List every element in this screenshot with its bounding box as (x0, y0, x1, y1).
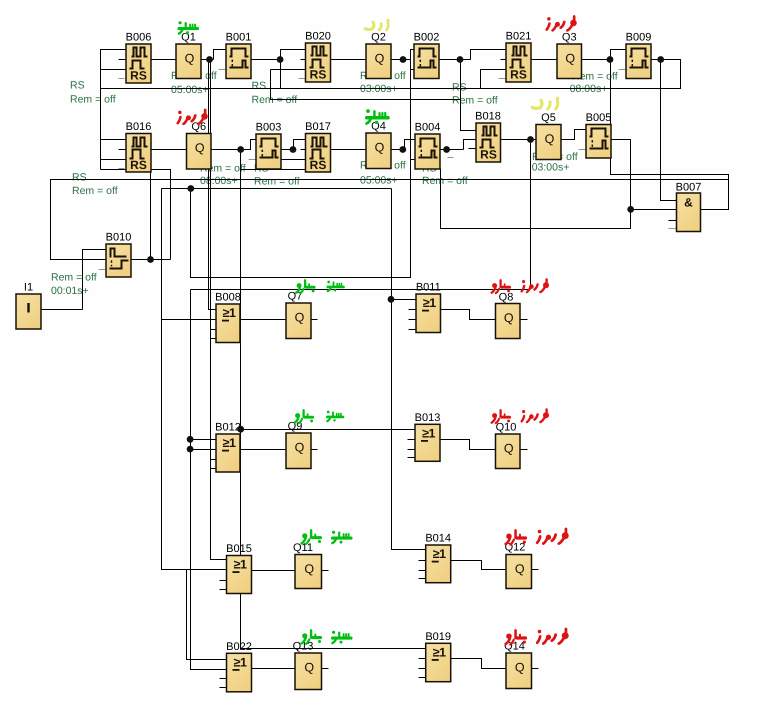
wire node down to bus (280, 60, 282, 89)
stub B011.in3 (409, 319, 417, 321)
junction node (388, 296, 395, 303)
OR gate B019 (425, 631, 451, 682)
neg mark B021 (499, 78, 507, 80)
junction node (237, 426, 244, 433)
output Q4 (366, 121, 391, 169)
wire B007.out feedback long bus (51, 180, 729, 260)
svg-text:Q: Q (565, 51, 575, 65)
junction node (627, 206, 634, 213)
svg-text:Q: Q (295, 310, 305, 324)
wire branch to B004.in3 (411, 159, 416, 161)
output Q13 (293, 641, 322, 690)
wire B006.out to Q1.in (152, 59, 177, 61)
svg-text:B015: B015 (226, 543, 252, 555)
output Q1 (176, 32, 201, 79)
stub Q11.out (322, 570, 329, 572)
svg-text:RS: RS (130, 158, 147, 172)
OR gate B008 (215, 292, 241, 343)
stub Q13.out (322, 668, 329, 670)
neg mark B018 (448, 157, 454, 159)
stub B017.in2 (301, 149, 306, 151)
stub B019.in2 (419, 658, 426, 660)
svg-text:Q5: Q5 (541, 112, 556, 124)
wire Q6.out jog to B003.in1 (212, 140, 257, 150)
svg-text:Q8: Q8 (499, 292, 514, 304)
svg-text:B006: B006 (126, 32, 152, 44)
wire I1.out to branches (42, 309, 83, 311)
label green sabz above Q11 (332, 531, 351, 544)
label red qermez above Q3 (547, 16, 577, 30)
junction node (237, 146, 244, 153)
wire long wire into B007.in2 node (441, 169, 631, 229)
output Q10 (496, 422, 521, 469)
svg-text:B013: B013 (415, 412, 441, 424)
svg-text:Q: Q (375, 51, 385, 65)
svg-text:≥1: ≥1 (423, 296, 436, 310)
neg mark B010 (99, 269, 107, 271)
label green aber above Q7 (296, 280, 314, 293)
svg-text:≥1: ≥1 (234, 655, 247, 669)
svg-text:Q10: Q10 (496, 422, 517, 434)
stub B006.in3 (101, 69, 127, 71)
wire jog up to B009.in1 (611, 50, 627, 60)
wire stub B008.in4 (211, 338, 217, 340)
OR gate B014 (425, 533, 451, 583)
junction node (657, 56, 664, 63)
wire node down to B007.in1 (661, 60, 677, 201)
stub B019.in3 (419, 668, 426, 670)
stub Q7.out (312, 319, 318, 321)
svg-text:Q: Q (304, 562, 314, 576)
label red qermez above Q8 (522, 279, 549, 292)
output Q9 (286, 421, 311, 469)
junction node (187, 185, 194, 192)
wire branch to B012.in2 (191, 449, 217, 451)
pulse relay B018 (475, 111, 501, 163)
stub B014.in2 (419, 560, 426, 562)
wire B020.out to Q2.in (331, 59, 367, 61)
wire node down to Q2 column (191, 60, 411, 278)
svg-text:Q: Q (504, 311, 514, 325)
output Q14 (504, 641, 531, 689)
OR gate B022 (226, 641, 252, 692)
stub B013.in4 (408, 457, 416, 459)
wire branch down to B022.in1 (187, 570, 227, 660)
wire Q3 node down to bus A (611, 60, 729, 180)
svg-text:Rem = off: Rem = off (72, 185, 118, 197)
svg-text:Q: Q (515, 562, 525, 576)
svg-text:B003: B003 (256, 122, 282, 134)
wire Q1 node down to B015.in1 (211, 60, 227, 560)
svg-text:Q: Q (304, 660, 314, 674)
wire branch B016.in1 (101, 139, 127, 141)
wiping relay timer B001 (226, 32, 252, 79)
output Q12 (505, 542, 532, 589)
svg-text:B017: B017 (305, 121, 331, 133)
svg-text:B021: B021 (506, 31, 532, 43)
wire B015.out to Q11.in (252, 570, 296, 572)
wire Q2.out to node (392, 59, 411, 61)
svg-text:RS: RS (252, 80, 267, 92)
wire Q5.in node down to bus (530, 140, 532, 290)
output Q6 (187, 121, 212, 169)
svg-text:B022: B022 (226, 641, 252, 653)
label green sabz above Q7 (327, 281, 343, 292)
stub Q10.out (521, 449, 528, 451)
label red qermez above Q14 (537, 629, 569, 644)
wire B018.out to Q5.in (501, 139, 537, 141)
wire jog up to B020.in1 (281, 50, 306, 60)
label green aber above Q9 (295, 410, 313, 423)
junction node (290, 146, 297, 153)
label yellow zard above Q2 (365, 19, 390, 30)
svg-text:B004: B004 (415, 122, 441, 134)
wire jog up to B001.in1 (214, 50, 227, 60)
wire B019.out to Q14.in (451, 659, 507, 669)
wiping relay timer B004 (415, 122, 441, 170)
svg-text:Q: Q (185, 51, 195, 65)
svg-text:03:00s+: 03:00s+ (532, 162, 570, 174)
wiping relay timer B005 (586, 112, 612, 158)
stub B020.in2 (301, 59, 306, 61)
label red aber above Q8 (492, 280, 510, 293)
svg-text:Q4: Q4 (371, 121, 386, 133)
label green sabz above Q1 (179, 21, 198, 34)
svg-text:Rem = off: Rem = off (70, 93, 116, 105)
svg-text:Q3: Q3 (562, 32, 577, 44)
wire B016.out to Q6.in (152, 149, 187, 151)
svg-text:Q: Q (545, 132, 555, 146)
wire B005.out down to B007.in2 node (612, 140, 677, 210)
svg-text:00:01s+: 00:01s+ (51, 285, 89, 297)
output Q7 (286, 291, 311, 339)
wire branch B016.in4 behind block (101, 169, 151, 171)
wire branch B016.in3 (101, 159, 127, 161)
junction node (607, 56, 614, 63)
junction node (187, 436, 194, 443)
stub B013.in2 (408, 439, 416, 441)
AND gate B007 (676, 182, 702, 232)
wire Q5.out jog to B005.in1 (562, 130, 587, 140)
junction node (527, 136, 534, 143)
OR gate B015 (226, 543, 252, 594)
neg mark B003 (249, 159, 257, 161)
stub B006.in2 (119, 59, 127, 61)
wiping relay timer B003 (256, 122, 282, 170)
pulse relay B020 (305, 31, 331, 83)
svg-text:B016: B016 (126, 121, 152, 133)
stub B018.in3 (469, 148, 477, 150)
pulse relay B006 (126, 32, 152, 84)
pulse relay B016 (126, 121, 152, 172)
svg-text:Q: Q (515, 660, 525, 674)
stub B019.in4 (419, 677, 426, 679)
svg-text:&: & (684, 196, 693, 210)
wire B002.out to node (440, 59, 471, 61)
wire jog up to B021.in1 (471, 50, 507, 60)
svg-text:B019: B019 (425, 631, 451, 643)
wire B011.out to Q8.in (441, 310, 496, 320)
wire B017.in3 behind B003 (282, 159, 306, 161)
wire B014.out to Q12.in (451, 561, 507, 570)
label red aber above Q14 (506, 630, 526, 644)
wire stub B012.in4 (211, 468, 217, 470)
svg-text:B001: B001 (226, 32, 252, 44)
wire B008.out to Q7.in (241, 319, 287, 321)
label red aber above Q10 (492, 410, 510, 423)
wire B021.in3 from bus (481, 70, 507, 89)
svg-text:I1: I1 (24, 282, 33, 294)
wire branch to B017.in4 (241, 169, 306, 171)
wire bus down to B014.in1 (392, 189, 426, 550)
wire stub B012.in3 (211, 459, 217, 461)
svg-text:≥1: ≥1 (234, 558, 247, 572)
stub B016.in2 (119, 149, 127, 151)
wire B013.out to Q10.in (441, 440, 496, 450)
svg-text:B008: B008 (215, 292, 241, 304)
wire branch to B002.in3 (411, 69, 415, 71)
wire bus down to B022.in2 (191, 290, 227, 670)
svg-text:B002: B002 (414, 32, 440, 44)
junction node (277, 56, 284, 63)
svg-text:Q: Q (375, 140, 385, 154)
wire bus to B008.in2 (162, 319, 217, 321)
svg-text:Q: Q (295, 440, 305, 454)
svg-text:RS: RS (452, 82, 467, 94)
wire B022.out to Q13.in (252, 668, 296, 670)
svg-text:B009: B009 (626, 32, 652, 44)
wire bus down to B015.in2 (162, 189, 227, 570)
svg-text:≥1: ≥1 (433, 547, 446, 561)
svg-text:RS: RS (70, 80, 85, 92)
svg-text:08:00s+: 08:00s+ (200, 175, 238, 187)
svg-text:B014: B014 (425, 533, 451, 545)
neg mark B007 (669, 228, 677, 230)
svg-text:RS: RS (510, 68, 527, 82)
output Q2 (366, 32, 391, 79)
svg-text:Q: Q (195, 141, 205, 155)
junction node (187, 446, 194, 453)
svg-text:≥1: ≥1 (223, 306, 236, 320)
wire B001.out to node (252, 59, 281, 61)
wire jog up to B004.in1 (405, 140, 416, 150)
stub B015.in4 (220, 589, 227, 591)
svg-text:B007: B007 (676, 182, 702, 194)
wire branch to B011.in1 (392, 299, 417, 301)
wire B010.out to right (132, 259, 171, 261)
svg-text:RS: RS (310, 68, 327, 82)
svg-text:B018: B018 (475, 111, 501, 123)
svg-text:≥1: ≥1 (422, 426, 435, 440)
wire B021.out to Q3.in (532, 59, 558, 61)
stub B022.in4 (220, 687, 227, 689)
svg-text:RS: RS (310, 158, 327, 172)
input I1 (16, 282, 41, 330)
output Q5 (536, 112, 561, 160)
stub B013.in3 (408, 449, 416, 451)
svg-text:RS: RS (130, 69, 147, 83)
wire jog up to B018.in2 (464, 140, 477, 150)
stub Q8.out (521, 319, 528, 321)
stub B014.in3 (419, 570, 426, 572)
wire node down to B018.in1 (461, 60, 477, 131)
label red qermez above Q6 (178, 110, 208, 124)
neg mark B009 (619, 69, 627, 71)
label red qermez above Q12 (537, 529, 569, 544)
svg-text:B005: B005 (586, 112, 612, 124)
wire B020.in3 from cross wire (271, 69, 306, 71)
wire node jog up to B017.in1 (294, 140, 306, 150)
stub Q12.out (532, 569, 539, 571)
junction node (400, 56, 407, 63)
wire node down (150, 170, 152, 260)
label green sabz above Q9 (327, 411, 343, 422)
svg-text:Rem = off: Rem = off (422, 175, 468, 187)
wire up to B016.in4 (151, 170, 171, 260)
on-delay timer B010 (106, 232, 132, 278)
wiping relay timer B002 (414, 32, 440, 79)
pulse relay B017 (305, 121, 331, 172)
wire B003.out to node (282, 149, 294, 151)
neg mark B016 (119, 168, 125, 170)
wire branch to B013.in1 (241, 429, 416, 431)
junction node (457, 56, 464, 63)
OR gate B011 (416, 282, 441, 333)
stub B015.in3 (220, 580, 227, 582)
label red aber above Q12 (506, 530, 526, 544)
stub B021.in2 (501, 59, 507, 61)
label green aber above Q13 (302, 630, 321, 643)
svg-text:Rem = off: Rem = off (51, 271, 97, 283)
svg-text:Q2: Q2 (371, 32, 386, 44)
svg-text:≥1: ≥1 (223, 436, 236, 450)
pulse relay B021 (506, 31, 532, 83)
neg mark B006 (119, 78, 125, 80)
svg-text:B012: B012 (215, 422, 241, 434)
neg mark B001 (219, 69, 227, 71)
OR gate B012 (215, 422, 241, 473)
svg-text:05:00s+: 05:00s+ (171, 84, 209, 96)
svg-text:≥1: ≥1 (433, 645, 446, 659)
neg mark B005 (579, 149, 587, 151)
svg-text:05:00s+: 05:00s+ (360, 175, 398, 187)
stub B011.in2 (409, 309, 417, 311)
stub Q14.out (532, 668, 539, 670)
svg-text:Rem = off: Rem = off (452, 95, 498, 107)
stub B011.in4 (409, 329, 417, 331)
wire B017.out to Q4.in (331, 149, 367, 151)
output Q11 (293, 542, 321, 589)
label yellow zard above Q5 (532, 97, 559, 109)
svg-text:B011: B011 (416, 282, 441, 294)
svg-text:B020: B020 (305, 31, 331, 43)
wire cross wire down (271, 70, 461, 100)
wiping relay timer B009 (626, 32, 652, 79)
junction node (443, 146, 450, 153)
svg-text:RS: RS (480, 148, 497, 162)
stub B014.in4 (419, 578, 426, 580)
wire bus y289 (191, 289, 531, 291)
svg-text:Q: Q (504, 441, 514, 455)
stub B007.in3 (669, 220, 677, 222)
junction node (206, 56, 213, 63)
wire B004.out to node (441, 149, 464, 151)
wire B012.out to Q9.in (241, 449, 287, 451)
label green aber above Q11 (302, 530, 321, 543)
wire Q4.out to node (392, 149, 403, 151)
junction node (147, 256, 154, 263)
svg-text:RS: RS (72, 172, 87, 184)
output Q3 (557, 32, 582, 79)
stub Q9.out (312, 449, 318, 451)
OR gate B013 (415, 412, 441, 462)
neg mark B020 (299, 78, 306, 80)
wire bus y188 (162, 188, 392, 190)
svg-text:Rem = off: Rem = off (254, 175, 300, 187)
wire branch up to B010.in1 (83, 250, 107, 310)
junction node (399, 146, 406, 153)
wire stub B008.in3 (211, 329, 217, 331)
wire Q1 node down to B008.in1 (209, 60, 217, 310)
stub B007.in4 (669, 228, 677, 230)
output Q8 (496, 292, 521, 339)
wire bus down to B019.in1 (241, 150, 426, 649)
label red qermez above Q10 (522, 409, 549, 422)
stub B022.in3 (220, 678, 227, 680)
wire jog up to B002.in1 (411, 50, 415, 60)
wire left bus down (100, 89, 102, 170)
label green sabz above Q13 (332, 631, 351, 644)
wire Q1.out to node (202, 59, 214, 61)
wire B009.out feedback bus to B006.in1 (101, 50, 681, 89)
svg-text:B010: B010 (106, 232, 132, 244)
label green sabz above Q4 (366, 109, 388, 124)
wire branch to B012.in1 (191, 439, 217, 441)
wire Q3.out to node (582, 59, 611, 61)
